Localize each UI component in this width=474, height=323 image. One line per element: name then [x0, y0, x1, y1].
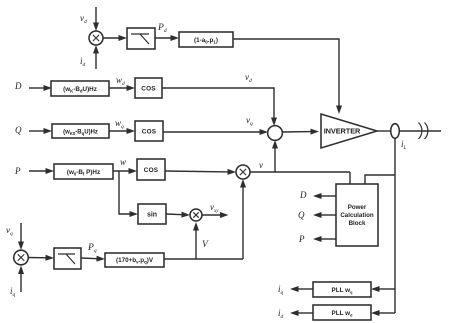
svg-text:(170+bv.pq)V: (170+bv.pq)V: [116, 257, 154, 264]
svg-text:COS: COS: [141, 86, 156, 93]
svg-text:Power: Power: [348, 204, 367, 211]
svg-text:sin: sin: [147, 212, 157, 219]
svg-text:(w0-Bf P)Hz: (w0-Bf P)Hz: [67, 169, 100, 176]
svg-text:COS: COS: [142, 129, 157, 136]
svg-text:v: v: [259, 160, 263, 170]
svg-text:D: D: [14, 81, 22, 91]
svg-text:PLL wq: PLL wq: [332, 287, 353, 295]
svg-text:INVERTER: INVERTER: [324, 127, 361, 136]
svg-text:PLL wd: PLL wd: [332, 310, 353, 318]
svg-text:P: P: [298, 234, 305, 244]
svg-text:P: P: [14, 166, 21, 176]
svg-text:Q: Q: [298, 210, 305, 220]
svg-text:(wK0-BqU)Hz: (wK0-BqU)Hz: [63, 130, 98, 136]
svg-text:COS: COS: [144, 167, 159, 174]
svg-text:Q: Q: [15, 125, 22, 135]
svg-text:Calculation: Calculation: [340, 212, 374, 219]
svg-text:D: D: [299, 190, 307, 200]
svg-text:Block: Block: [349, 220, 366, 227]
svg-text:w: w: [120, 157, 126, 167]
